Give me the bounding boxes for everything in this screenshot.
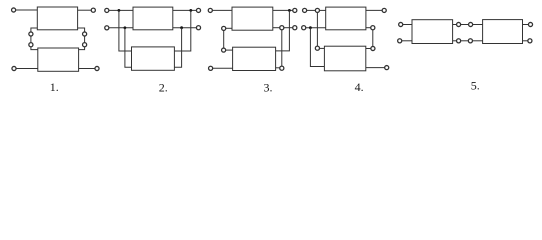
wire	[523, 40, 528, 42]
wire (right inner link)	[281, 30, 283, 67]
terminal 2' (fig3 mid-right)	[293, 26, 297, 30]
two-port box N2 (fig3 bottom)	[233, 47, 276, 70]
terminal 1 (fig4 top-left)	[303, 8, 307, 12]
node 1 of N2 (circle)	[222, 48, 226, 52]
node 1' of N2 (circle)	[468, 39, 472, 43]
wire	[319, 9, 325, 11]
wire (right inner bus)	[174, 28, 181, 67]
wire (series link left)	[30, 36, 32, 43]
svg-text:4.: 4.	[355, 80, 364, 94]
wire	[284, 27, 293, 29]
two-port box N2 (fig1 bottom)	[38, 48, 79, 71]
wire (left inner bus)	[125, 28, 132, 68]
junction (fig3 right outer)	[288, 9, 291, 12]
wire (left outer bus)	[310, 28, 324, 67]
wire (left outer bus)	[119, 10, 132, 51]
wire	[273, 27, 280, 29]
node 1' of N1 (circle)	[29, 32, 33, 36]
junction (fig4 left outer)	[309, 26, 312, 29]
node 2 of N2 (circle)	[371, 46, 375, 50]
wire	[453, 40, 457, 42]
wire	[78, 9, 92, 11]
terminal 1' (fig3 bottom-left)	[209, 66, 213, 70]
two-port box N2 (fig5 right)	[483, 20, 523, 44]
wire	[453, 24, 457, 26]
terminal 2' (fig1 bottom-right)	[95, 66, 99, 70]
terminal 1' (fig1 bottom-left)	[12, 66, 16, 70]
wire (N1 lower-left lead)	[226, 27, 232, 29]
wire	[273, 9, 293, 11]
wire	[109, 27, 133, 29]
wire (N1 lower-right lead)	[366, 27, 371, 29]
wire	[79, 68, 95, 70]
node 2 of N1 (circle)	[457, 22, 461, 26]
wire	[366, 9, 382, 11]
wire (N1 lower-left lead)	[31, 28, 37, 32]
wire	[473, 24, 483, 26]
terminal 1 (fig3 top-left)	[208, 8, 212, 12]
terminal 2' (fig5 bottom-right)	[528, 39, 532, 43]
junction (fig2 right outer)	[189, 9, 192, 12]
wire	[276, 67, 280, 69]
terminal 2 (fig5 top-right)	[528, 22, 532, 26]
wire	[472, 40, 482, 42]
wire	[16, 68, 38, 70]
node 2' of N1 (circle)	[457, 39, 461, 43]
terminal 2 (fig1 top-right)	[91, 8, 95, 12]
terminal 2 (fig2 top-right)	[196, 8, 200, 12]
terminal 2 (fig4 top-right)	[382, 8, 386, 12]
wire (right outer bus)	[174, 10, 190, 51]
node 1 of N2 (circle)	[315, 46, 319, 50]
wire	[523, 24, 529, 26]
two-port box N1 (fig5 left)	[412, 20, 453, 44]
junction (fig2 right inner)	[180, 26, 183, 29]
wire (cascade link bottom)	[461, 40, 469, 42]
terminal 1 (fig5 top-left)	[399, 22, 403, 26]
wire	[306, 27, 326, 29]
terminal 2' (fig2 mid-right)	[196, 26, 200, 30]
two-port box N1 (fig1 top)	[37, 7, 77, 30]
two-port box N1 (fig2 top)	[133, 7, 173, 30]
wire (series link right)	[84, 36, 86, 43]
terminal 1' (fig2 mid-left)	[105, 26, 109, 30]
wire	[307, 9, 316, 11]
wire	[402, 40, 412, 42]
node 2' of N1 (circle)	[280, 26, 284, 30]
wire (series link left)	[223, 31, 225, 48]
svg-text:2.: 2.	[159, 81, 168, 95]
wire	[109, 9, 133, 11]
svg-text:1.: 1.	[50, 80, 59, 94]
wire (N2 upper-right lead)	[366, 48, 371, 50]
wire	[319, 47, 324, 49]
wire (N2 upper-right lead)	[79, 47, 85, 50]
two-port box N2 (fig2 bottom)	[132, 47, 175, 70]
node 2' of N1 (circle)	[371, 26, 375, 30]
terminal 1 (fig1 top-left)	[12, 8, 16, 12]
node 2' of N1 (circle)	[83, 32, 87, 36]
terminal 2 (fig3 top-right)	[293, 8, 297, 12]
node 1 of N2 (circle)	[469, 22, 473, 26]
svg-text:3.: 3.	[264, 81, 273, 95]
node 1 of N2 (circle)	[29, 43, 33, 47]
two-port box N2 (fig4 bottom)	[324, 46, 365, 71]
two-port box N1 (fig4 top)	[326, 7, 366, 30]
two-port box N1 (fig3 top)	[232, 7, 273, 30]
terminal 2' (fig4 bottom-right)	[385, 66, 389, 70]
wire (N2 upper-left lead)	[31, 47, 38, 50]
wire	[403, 24, 412, 26]
junction (fig2 left outer)	[118, 9, 121, 12]
wire	[213, 67, 233, 69]
wire (left inner link)	[316, 12, 318, 46]
terminal 1 (fig2 top-left)	[105, 8, 109, 12]
node 2 of N2 (circle)	[83, 43, 87, 47]
wire	[213, 9, 233, 11]
junction (fig2 left inner)	[124, 26, 127, 29]
svg-text:5.: 5.	[471, 79, 480, 93]
wire	[173, 27, 197, 29]
terminal 1' (fig4 mid-left)	[302, 26, 306, 30]
wire (cascade link top)	[461, 24, 469, 26]
wire (right outer bus)	[276, 10, 290, 51]
wire (N2 upper-left lead)	[226, 49, 233, 51]
wire (N1 lower-right lead)	[78, 28, 85, 32]
terminal 1' (fig5 bottom-left)	[398, 39, 402, 43]
wire	[16, 9, 38, 11]
node 1' of N1 (circle)	[222, 26, 226, 30]
wire (series link right)	[372, 30, 374, 47]
wire	[173, 9, 197, 11]
wire	[366, 67, 385, 69]
node 1 of N1 (circle)	[315, 8, 319, 12]
node 2' of N2 (circle)	[280, 66, 284, 70]
